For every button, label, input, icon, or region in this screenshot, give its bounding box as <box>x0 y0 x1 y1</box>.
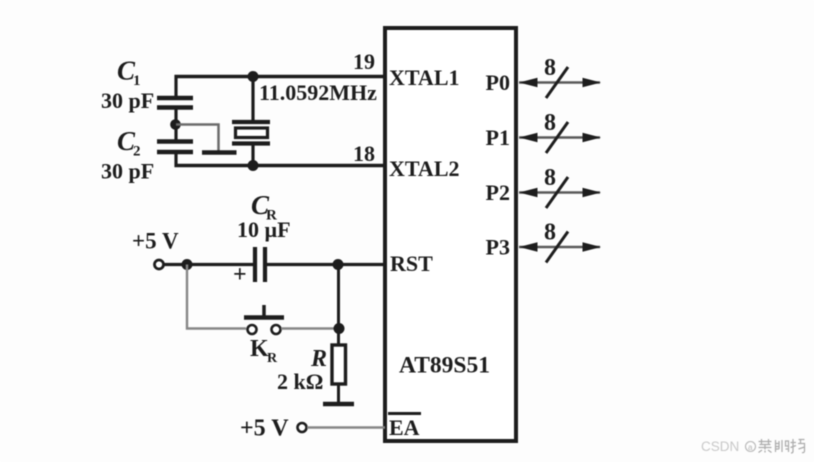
IC U1 AT89S51 body <box>385 28 516 441</box>
wire top to crystal <box>251 77 254 123</box>
wire switch to junction <box>281 327 339 329</box>
port P2 label <box>486 180 510 205</box>
label C1 <box>117 56 141 90</box>
wire left vertical segment to C1 <box>174 75 177 98</box>
label R <box>310 346 327 372</box>
svg-text:+: + <box>233 262 247 288</box>
wire junction to ground <box>176 125 219 151</box>
node RST junction <box>333 259 344 270</box>
svg-text:AT89S51: AT89S51 <box>399 353 490 379</box>
svg-text:EA: EA <box>389 415 420 440</box>
capacitor C2 <box>157 142 193 153</box>
bus arrow P2 <box>519 165 601 208</box>
node reset left junction <box>182 259 193 270</box>
svg-text:+5 V: +5 V <box>240 416 289 442</box>
pin number 19 <box>353 49 375 74</box>
node switch-resistor junction <box>334 323 345 334</box>
pin label EA <box>388 414 421 441</box>
pin number 18 <box>353 141 375 166</box>
svg-text:30 pF: 30 pF <box>101 88 154 113</box>
wire RST junction down <box>337 265 340 329</box>
wire resistor to ground <box>337 384 340 402</box>
svg-text:1: 1 <box>133 73 141 89</box>
ground oscillator <box>202 150 237 155</box>
value 2 kOhm <box>277 369 323 394</box>
terminal +5V EA <box>298 423 307 432</box>
svg-text:11.0592MHz: 11.0592MHz <box>259 80 377 105</box>
capacitor CR <box>255 247 265 282</box>
wire C2 to bottom <box>174 152 177 167</box>
label +5 V EA <box>240 416 289 442</box>
value 11.0592MHz <box>259 80 377 105</box>
svg-text:RST: RST <box>390 251 433 276</box>
crystal Y1 11.0592MHz <box>232 122 270 144</box>
ground resistor <box>323 402 354 407</box>
svg-text:P3: P3 <box>486 235 510 260</box>
svg-text:8: 8 <box>544 165 556 191</box>
wire +5V down to switch <box>187 265 246 329</box>
port P0 label <box>486 70 510 95</box>
svg-text:19: 19 <box>353 49 375 74</box>
wire C1 to C2 <box>174 108 177 142</box>
svg-text:10 µF: 10 µF <box>237 217 291 242</box>
terminal +5V reset <box>155 260 164 269</box>
label +5 V reset <box>132 229 179 254</box>
pin label RST <box>390 251 433 276</box>
svg-text:8: 8 <box>544 55 556 81</box>
svg-text:2: 2 <box>133 144 141 160</box>
svg-text:18: 18 <box>353 141 375 166</box>
svg-text:30 pF: 30 pF <box>101 159 154 184</box>
svg-text:R: R <box>267 351 278 366</box>
svg-text:XTAL1: XTAL1 <box>389 65 460 90</box>
bus arrow P3 <box>519 220 601 263</box>
svg-text:CSDN: CSDN <box>701 439 739 454</box>
node top crystal junction <box>248 71 259 82</box>
resistor R 2k <box>332 345 346 384</box>
capacitor C1 <box>157 98 193 108</box>
watermark hanzi <box>759 439 805 453</box>
value 10 uF <box>237 217 291 242</box>
value 30 pF upper <box>101 88 154 113</box>
node junction C1-C2 <box>170 119 181 130</box>
port P1 label <box>486 125 510 150</box>
svg-text:XTAL2: XTAL2 <box>389 156 460 181</box>
svg-text:8: 8 <box>544 220 556 246</box>
svg-text:a: a <box>748 443 753 452</box>
svg-text:P1: P1 <box>486 125 510 150</box>
label C2 <box>117 126 141 160</box>
svg-text:P0: P0 <box>486 70 510 95</box>
wire CR to RST <box>267 263 385 266</box>
bus arrow P1 <box>519 110 601 153</box>
polarity plus sign <box>233 262 247 288</box>
watermark CSDN <box>701 439 756 454</box>
port P3 label <box>486 235 510 260</box>
wire terminal to junction <box>164 263 253 266</box>
wire XTAL2 bottom <box>175 164 386 168</box>
pin label XTAL2 <box>389 156 460 181</box>
switch KR <box>244 305 284 334</box>
wire junction to resistor <box>337 329 340 347</box>
pin label XTAL1 <box>389 65 460 90</box>
value 30 pF lower <box>101 159 154 184</box>
node bottom crystal junction <box>248 160 259 171</box>
svg-text:8: 8 <box>544 110 556 136</box>
wire XTAL1 top <box>175 75 386 79</box>
svg-text:+5 V: +5 V <box>132 229 179 254</box>
bus arrow P0 <box>519 55 601 98</box>
svg-text:2 kΩ: 2 kΩ <box>277 369 323 394</box>
label CR <box>251 190 277 224</box>
wire crystal to bottom <box>251 144 254 168</box>
label KR <box>250 336 278 366</box>
svg-text:P2: P2 <box>486 180 510 205</box>
wire terminal to EA <box>307 426 385 428</box>
IC name AT89S51 <box>399 353 490 379</box>
